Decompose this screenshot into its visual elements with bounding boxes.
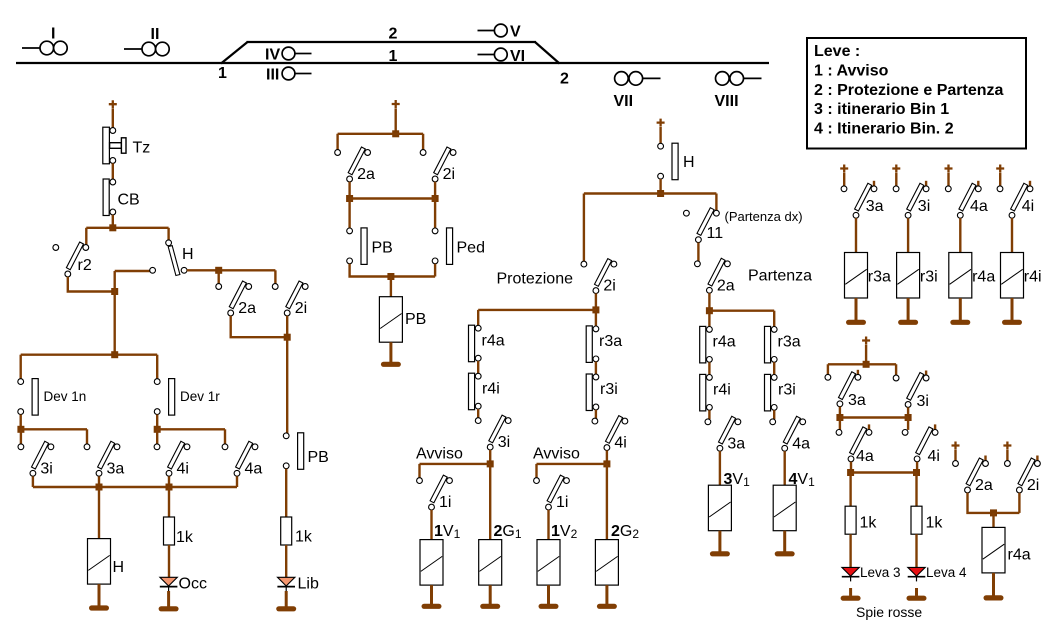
- wire r3a to r3i: [773, 362, 775, 375]
- turnout 1 diagonal: [221, 42, 248, 64]
- wire CB to node: [112, 215, 114, 228]
- svg-text:r4a: r4a: [482, 333, 505, 350]
- svg-text:Ped: Ped: [457, 240, 485, 257]
- svg-text:3i: 3i: [917, 393, 929, 410]
- wire to 1k Occ: [168, 487, 170, 517]
- relay coil r4a: [949, 253, 972, 299]
- lever switch 4i: [154, 441, 190, 477]
- wire to 3i: [20, 429, 22, 444]
- ground (Leva 3): [841, 596, 861, 601]
- wire bus under CB: [86, 227, 168, 229]
- svg-text:CB: CB: [118, 192, 140, 209]
- lever switch 2a (r4a): [953, 458, 993, 494]
- svg-text:Leva 4: Leva 4: [926, 565, 967, 580]
- wire H to 2a/2i: [187, 269, 276, 271]
- relay coil 2G2: [595, 540, 618, 586]
- wire + to 3i: [895, 173, 897, 187]
- ground (Leva 4): [907, 596, 927, 601]
- ground (r3i): [898, 320, 918, 325]
- svg-text:4a: 4a: [245, 460, 263, 477]
- track main line: [16, 62, 769, 64]
- svg-text:2i: 2i: [1027, 477, 1039, 494]
- wire 1i to 1V1: [430, 510, 432, 540]
- svg-text:III: III: [266, 67, 279, 84]
- wire PB coil to ground: [389, 342, 392, 362]
- lever switch 4a (spie): [836, 427, 874, 465]
- wire stub 3i: [925, 371, 927, 376]
- svg-text:2 : Protezione e Partenza: 2 : Protezione e Partenza: [814, 82, 1003, 99]
- svg-text:IV: IV: [265, 47, 280, 64]
- svg-text:2i: 2i: [443, 166, 455, 183]
- ground (r4i): [1002, 320, 1022, 325]
- svg-text:3i: 3i: [498, 434, 510, 451]
- wire 2i down: [595, 293, 597, 308]
- svg-text:2a: 2a: [238, 300, 256, 317]
- ground (1V2): [539, 604, 559, 609]
- svg-text:r3i: r3i: [778, 382, 796, 399]
- wire 4V1 to ground: [783, 531, 786, 552]
- wire + to 4a: [947, 173, 949, 187]
- svg-text:4i: 4i: [614, 435, 626, 452]
- wire r4i to ground: [1011, 298, 1014, 320]
- svg-text:Lib: Lib: [298, 576, 319, 593]
- resistor 1k (Lib): [281, 517, 313, 546]
- ground (4V1): [775, 551, 795, 556]
- wire 1V1 to ground: [430, 585, 433, 604]
- wire to 4i: [907, 418, 909, 430]
- svg-text:2: 2: [389, 26, 398, 43]
- relay contact H (changeover): [150, 240, 194, 276]
- svg-text:2a: 2a: [357, 166, 375, 183]
- svg-text:Occ: Occ: [179, 576, 207, 593]
- wire Dev 1n bus: [21, 428, 87, 430]
- wire down to 2i: [274, 270, 276, 283]
- svg-text:4a: 4a: [970, 198, 988, 215]
- svg-text:1 : Avviso: 1 : Avviso: [814, 62, 889, 79]
- junction spie feed: [863, 361, 870, 368]
- ground (3V1): [710, 551, 730, 556]
- wire + down: [865, 345, 867, 362]
- svg-text:VIII: VIII: [715, 93, 739, 110]
- svg-text:1k: 1k: [295, 529, 313, 546]
- svg-text:VI: VI: [510, 48, 525, 65]
- ground (r4a): [950, 320, 970, 325]
- wire spie top bus: [828, 363, 896, 365]
- relay coil 2G1: [479, 540, 502, 586]
- lever switch 4a (4V1): [770, 416, 810, 452]
- power + (left circuit): [109, 100, 117, 108]
- wire + to H contact: [659, 127, 661, 144]
- ground (PB coil): [381, 362, 401, 367]
- ground (Occ): [159, 606, 179, 611]
- wire 3V1 to ground: [718, 531, 721, 552]
- ground (r3a): [846, 320, 866, 325]
- svg-text:Partenza: Partenza: [748, 268, 812, 285]
- svg-text:Leva 3: Leva 3: [860, 565, 901, 580]
- wire 1k to Lib LED: [285, 545, 287, 578]
- svg-text:II: II: [151, 26, 160, 43]
- wire 1i to 1V2: [547, 510, 549, 540]
- contact PB: [347, 228, 393, 265]
- junction Occ feed: [166, 484, 173, 491]
- wire 3a to r3a: [855, 218, 857, 253]
- lever switch 3a (r3a): [841, 183, 883, 218]
- wire to 2G2: [606, 464, 608, 540]
- lever switch 2i (Protezione): [581, 259, 617, 295]
- svg-text:PB: PB: [308, 449, 329, 466]
- wire r3i to 4i: [595, 410, 597, 419]
- turnout 2 diagonal: [535, 42, 560, 64]
- lever switch 4a (r4a): [945, 183, 987, 218]
- wire stub 3i: [925, 181, 927, 186]
- wire stub 4a: [868, 424, 870, 429]
- wire PB/Ped bottoms: [350, 264, 436, 277]
- signal VI: [478, 48, 526, 65]
- lever switch 1i (1V1): [417, 475, 453, 511]
- wire + to Tz: [112, 109, 114, 129]
- junction Protezione: [592, 306, 599, 313]
- svg-text:2a: 2a: [975, 477, 993, 494]
- wire to r4a: [477, 310, 479, 326]
- wire Dev 1n down: [20, 415, 22, 430]
- pushbutton Tz: [103, 127, 150, 164]
- svg-text:4i: 4i: [1022, 198, 1034, 215]
- wire bus to H: [167, 228, 169, 240]
- junction Leva 4 feed: [913, 469, 920, 476]
- contact CB: [103, 179, 140, 216]
- wire to Ped contact: [434, 199, 436, 229]
- wire H coil to ground: [98, 584, 101, 606]
- wire PB to 1k: [285, 469, 287, 518]
- relay coil PB: [379, 297, 402, 343]
- svg-text:Leve :: Leve :: [814, 43, 860, 60]
- wire + to 3a: [843, 173, 845, 187]
- lever switch 3i (spie): [893, 373, 929, 411]
- contact r4i (Partenza): [700, 374, 731, 411]
- svg-text:2i: 2i: [603, 278, 615, 295]
- svg-text:1i: 1i: [556, 494, 568, 511]
- wire r3a to r3i: [595, 362, 597, 375]
- junction left: [346, 195, 353, 202]
- wire 4a to 4V1: [784, 451, 786, 485]
- wire r4a to ground: [992, 573, 995, 596]
- svg-text:PB: PB: [372, 240, 393, 257]
- junction r2 branch: [111, 288, 118, 295]
- signal V: [478, 24, 522, 41]
- signal I: [22, 26, 67, 55]
- svg-text:1: 1: [218, 65, 227, 82]
- wire stub 3a: [857, 370, 859, 375]
- wire to 3a: [86, 429, 88, 444]
- wire to 4a: [224, 429, 226, 444]
- wire Leva 3 ground: [849, 588, 852, 596]
- wire bus Dev: [21, 354, 158, 356]
- wire 2G2 to ground: [605, 585, 608, 604]
- LED Leva 4: [908, 567, 926, 581]
- wire 3a down: [839, 407, 841, 415]
- power + (2i r4a): [1003, 442, 1011, 450]
- wire Occ to ground: [167, 591, 170, 607]
- wire r4a to r4i: [477, 361, 479, 374]
- wires switch row to bus: [33, 476, 237, 487]
- wire Dev 1r bus: [157, 428, 225, 430]
- contact Dev 1n: [18, 379, 86, 416]
- wire Avviso 1 bus: [420, 463, 491, 465]
- wire Protezione bus: [478, 309, 596, 311]
- contact r4a (Partenza): [700, 326, 736, 363]
- signal VII: [614, 72, 661, 110]
- svg-text:4a: 4a: [856, 448, 874, 465]
- junction spie mid right: [905, 414, 912, 421]
- contact r3i (Partenza): [765, 374, 796, 411]
- svg-text:1k: 1k: [926, 515, 944, 532]
- relay coil r4a (bottom): [982, 527, 1005, 573]
- signal VIII: [715, 72, 762, 110]
- svg-text:r3i: r3i: [920, 269, 938, 286]
- resistor 1k (Leva 3): [845, 506, 877, 534]
- contact H: [658, 143, 695, 180]
- svg-text:3a: 3a: [866, 198, 884, 215]
- wire PB top bus: [338, 133, 424, 135]
- contact Dev 1r: [154, 379, 220, 416]
- svg-text:Avviso: Avviso: [533, 446, 580, 463]
- wire Partenza bus: [709, 310, 774, 312]
- svg-text:3i: 3i: [40, 460, 52, 477]
- svg-text:H: H: [182, 246, 194, 263]
- wire to 1k Leva4: [915, 473, 917, 507]
- power + (r3a column): [840, 165, 848, 173]
- wire to 1i: [535, 464, 537, 478]
- relay coil 4V1: [773, 485, 796, 531]
- LED Lib: [277, 577, 295, 591]
- junction Avviso 1: [487, 460, 494, 467]
- svg-text:r3a: r3a: [778, 334, 801, 351]
- svg-text:r4i: r4i: [1024, 269, 1042, 286]
- wire 4i down: [606, 450, 608, 461]
- lever switch 2i: [272, 281, 308, 317]
- lever switch 2a: [216, 281, 256, 317]
- wire r3i to 4a: [773, 410, 775, 419]
- relay coil H: [88, 539, 111, 585]
- wire to 4a: [839, 418, 841, 430]
- wire 2a down: [348, 182, 350, 196]
- svg-text:1V2: 1V2: [551, 523, 578, 541]
- power + (r4i column): [996, 165, 1004, 173]
- wire spie mid bus: [840, 416, 908, 418]
- wire r4a to ground: [959, 298, 962, 320]
- contact r3i (Protezione): [586, 374, 618, 411]
- ground (Lib): [276, 606, 296, 611]
- lever switch 3a: [84, 441, 124, 477]
- lever switch 3i (r3i): [893, 183, 930, 218]
- wire 4i down: [916, 462, 918, 473]
- svg-text:(Partenza dx): (Partenza dx): [725, 209, 803, 224]
- svg-text:4a: 4a: [792, 435, 810, 452]
- contact r3a (Protezione): [586, 326, 622, 363]
- svg-text:3a: 3a: [727, 435, 745, 452]
- contact r3a (Partenza): [765, 326, 801, 363]
- svg-text:4i: 4i: [177, 460, 189, 477]
- wire to 1i: [418, 464, 420, 478]
- wire to PB coil: [390, 277, 392, 298]
- wire to PB contact: [348, 199, 350, 229]
- svg-text:Protezione: Protezione: [497, 271, 574, 288]
- wire stub 3a: [873, 181, 875, 186]
- wire to H left contact: [115, 270, 151, 272]
- wire to r4a: [708, 313, 710, 327]
- relay coil 3V1: [708, 485, 731, 531]
- wire 11 to 2a: [697, 243, 699, 263]
- wire 4i to r4i: [1011, 218, 1013, 253]
- svg-text:2G2: 2G2: [611, 523, 639, 541]
- wire to r3a: [595, 312, 597, 326]
- junction Partenza: [706, 307, 713, 314]
- svg-text:4i: 4i: [928, 448, 940, 465]
- lever switch 2a (Partenza): [695, 258, 735, 294]
- lever switch 3a (3V1): [705, 416, 745, 452]
- resistor 1k (Leva 4): [911, 506, 943, 534]
- lever switch 3i (Avviso 1): [475, 415, 511, 451]
- power + (PB group): [392, 100, 400, 108]
- svg-text:I: I: [51, 26, 55, 43]
- junction feed 2a: [215, 267, 222, 274]
- lever switch 4a: [222, 441, 262, 477]
- junction H coil feed: [96, 484, 103, 491]
- wire r4i to 3a: [708, 410, 710, 419]
- svg-text:r3a: r3a: [599, 333, 622, 350]
- svg-text:Spie rosse: Spie rosse: [856, 604, 922, 620]
- junction trunk/Dev bus: [111, 351, 118, 358]
- junction under Dev 1n: [17, 426, 24, 433]
- svg-text:r3i: r3i: [600, 381, 618, 398]
- signal IV: [265, 47, 312, 64]
- junction Leva 3 feed: [847, 469, 854, 476]
- wire r4i to 3i: [477, 409, 479, 418]
- power + (spie): [862, 337, 870, 345]
- resistor 1k (Occ): [164, 517, 194, 546]
- svg-text:4 : Itinerario Bin. 2: 4 : Itinerario Bin. 2: [814, 121, 954, 138]
- wire 2a bottom: [231, 316, 288, 337]
- lever switch 4i (Avviso 2): [592, 416, 628, 452]
- junction right: [432, 195, 439, 202]
- svg-text:H: H: [683, 154, 695, 171]
- svg-text:r2: r2: [78, 257, 92, 274]
- LED Occ: [160, 577, 178, 591]
- power + (r4a column): [945, 165, 953, 173]
- wire 2a bottom: [968, 493, 1020, 513]
- svg-text:PB: PB: [405, 311, 426, 328]
- svg-text:H: H: [113, 559, 125, 576]
- ground (2G2): [597, 604, 617, 609]
- wire stub 4a: [977, 181, 979, 186]
- wire lower bus: [33, 486, 237, 488]
- LED Leva 3: [842, 567, 860, 581]
- lever switch 1i (1V2): [534, 475, 570, 511]
- wire spie lower bus: [851, 471, 917, 473]
- relay coil 1V1: [420, 540, 443, 586]
- wire to 2i Protezione: [583, 194, 585, 262]
- wire to Leva 3 LED: [849, 534, 851, 568]
- junction Avviso 2: [603, 460, 610, 467]
- wire to H coil: [98, 487, 100, 539]
- relay coil r3i: [897, 253, 920, 299]
- wire H distribution bus: [584, 192, 717, 194]
- wire middle bus: [350, 197, 436, 199]
- wire to r4a coil: [992, 513, 994, 528]
- lever switch 3i: [18, 441, 54, 477]
- svg-text:1V1: 1V1: [434, 523, 461, 541]
- ground (2G1): [480, 604, 500, 609]
- wire H contact down: [659, 179, 661, 191]
- contact r4a (Protezione): [469, 325, 505, 362]
- svg-text:Dev 1r: Dev 1r: [180, 389, 220, 404]
- svg-text:2i: 2i: [295, 300, 307, 317]
- wire 2a down: [708, 293, 710, 308]
- svg-text:11: 11: [707, 225, 724, 242]
- lever switch 2i (r4a): [1005, 458, 1041, 494]
- svg-text:r4i: r4i: [713, 382, 731, 399]
- power + (H contact): [657, 119, 665, 127]
- wire stub 2a: [984, 456, 986, 461]
- wire Ped bottom: [434, 264, 436, 277]
- wire 3a to 3V1: [719, 451, 721, 485]
- wire r3i to ground: [907, 298, 910, 320]
- wire r3a to ground: [855, 298, 858, 320]
- wires bus to 2a/2i: [338, 134, 424, 150]
- junction under CB: [109, 224, 116, 231]
- wire 3i down: [907, 407, 909, 415]
- svg-text:Avviso: Avviso: [416, 446, 463, 463]
- signal II: [124, 26, 169, 56]
- wire vertical trunk: [113, 271, 115, 355]
- junction PB coil feed: [387, 273, 394, 280]
- relay coil 1V2: [537, 540, 560, 586]
- track 2 loop line: [247, 41, 537, 43]
- junction under Dev 1r: [154, 426, 161, 433]
- wire to r3a: [773, 311, 775, 327]
- svg-text:3i: 3i: [918, 198, 930, 215]
- junction 2a/2i: [284, 334, 291, 341]
- wire 3i to r3i: [907, 218, 909, 253]
- wire + to 2a: [954, 450, 956, 462]
- svg-text:r4i: r4i: [482, 381, 500, 398]
- wire 2i down: [434, 182, 436, 196]
- wire to switch 11: [715, 194, 717, 211]
- contact PB (Lib branch): [283, 433, 329, 470]
- ground (1V1): [422, 604, 442, 609]
- wire Tz to CB: [112, 163, 114, 181]
- lever switch 4i (spie): [902, 427, 940, 465]
- wire 2i bottom: [1018, 493, 1020, 513]
- relay contact r2: [53, 242, 92, 277]
- svg-text:1k: 1k: [176, 529, 194, 546]
- svg-text:Tz: Tz: [133, 140, 151, 157]
- wires bus to 3a/3i: [828, 364, 896, 375]
- wire Leva 4 ground: [915, 588, 918, 596]
- lever switch 11: [684, 208, 724, 243]
- svg-text:VII: VII: [614, 93, 634, 110]
- lever switch 2a (PB): [335, 147, 375, 183]
- wire to 1k Leva3: [849, 473, 851, 507]
- svg-text:r4a: r4a: [713, 334, 736, 351]
- svg-text:3 : itinerario Bin 1: 3 : itinerario Bin 1: [814, 101, 949, 118]
- wire Avviso 2 bus: [537, 463, 607, 465]
- wire Lib to ground: [285, 591, 288, 607]
- junction PB feed: [392, 130, 399, 137]
- wire stub 4i: [1029, 181, 1031, 186]
- svg-text:1: 1: [389, 48, 398, 65]
- legend box Leve: [807, 38, 1026, 149]
